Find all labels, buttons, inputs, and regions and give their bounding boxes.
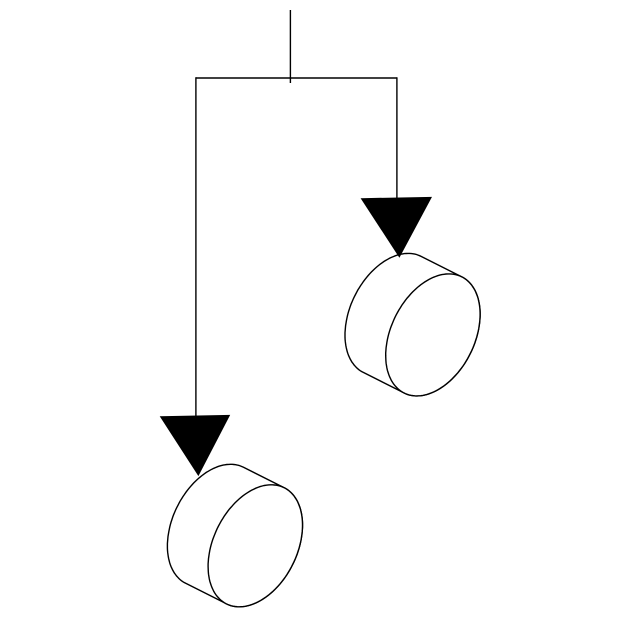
wire: top vertical stem xyxy=(289,10,291,83)
disk D2 (right cylinder, silhouette + front face) xyxy=(345,253,480,396)
arrowhead right xyxy=(361,197,432,258)
wire: right branch vertical xyxy=(396,77,398,198)
wire: horizontal branch bar xyxy=(196,77,397,79)
arrowhead left xyxy=(160,415,231,476)
disk D1 (left cylinder, silhouette + front face) xyxy=(167,464,302,607)
wire: left branch vertical xyxy=(195,77,197,416)
